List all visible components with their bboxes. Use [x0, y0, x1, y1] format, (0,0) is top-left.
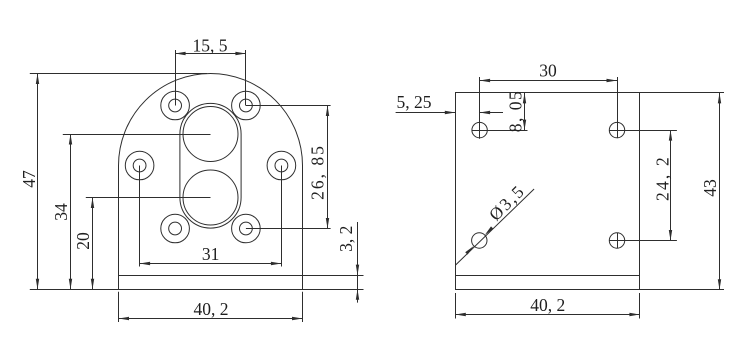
extension line top-left hole vertical (30 dim)	[479, 77, 481, 139]
dimension 30 (hole spacing)	[480, 61, 617, 83]
dimension 31 (mid hole spacing)	[140, 244, 282, 265]
counterbored hole top-right (left view)	[232, 91, 261, 120]
extension line top holes to 15,5 dim (right)	[245, 50, 247, 106]
left view bottom edge with extension line	[30, 289, 364, 291]
centre line top-right hole to 24,2 dim	[609, 130, 677, 132]
counterbored hole top-left (left view)	[161, 91, 190, 120]
gearbox slot outline	[180, 103, 241, 228]
extension line foot edge for 3,2 dim	[303, 275, 364, 277]
hole top-right (right view)	[609, 122, 624, 137]
svg-text:30: 30	[539, 61, 557, 81]
counterbored hole bottom-right (left view)	[232, 214, 261, 243]
counterbored hole bottom-left (left view)	[161, 214, 190, 243]
extension line top-right hole to 26,85 dim	[246, 105, 331, 107]
extension lines 40,2 (right view)	[456, 293, 640, 319]
svg-text:26, 85: 26, 85	[308, 144, 328, 200]
dimension 47 (overall height)	[19, 74, 39, 290]
dimension 3,2 (foot thickness)	[336, 222, 359, 303]
svg-text:34: 34	[51, 203, 71, 221]
leader line diameter 3,5	[456, 180, 534, 265]
svg-text:5, 25: 5, 25	[397, 92, 432, 112]
svg-text:15, 5: 15, 5	[193, 35, 228, 55]
svg-text:47: 47	[19, 170, 39, 188]
svg-text:20: 20	[73, 232, 93, 250]
dimension 5,25 (edge to hole)	[396, 92, 503, 114]
extension line upper gear centre for 34 dim	[63, 134, 211, 136]
dimension 40,2 (left view width)	[119, 299, 303, 320]
svg-text:8, 05: 8, 05	[506, 90, 526, 133]
centre line top-left hole to 8,05 dim	[472, 130, 528, 132]
hole bottom-right (right view)	[609, 233, 624, 248]
extension lines 40,2 (left view)	[119, 292, 303, 322]
counterbored hole mid-left (left view)	[125, 151, 154, 180]
left view foot edge line	[119, 275, 303, 277]
dimension 20 (lower gear centre height)	[73, 198, 94, 290]
svg-text:40, 2: 40, 2	[530, 295, 565, 315]
dimension 43 (plate height)	[700, 93, 721, 290]
right view foot edge line	[455, 275, 640, 277]
left view body outline	[119, 74, 303, 290]
extension line mid-right hole to 31 dim	[281, 166, 283, 267]
hole bottom-left (right view)	[472, 233, 487, 248]
dimension 26,85 (hole row spacing)	[308, 106, 330, 229]
lower gear circle	[183, 170, 238, 225]
dimension 40,2 (plate width)	[455, 295, 640, 316]
svg-text:40, 2: 40, 2	[194, 299, 229, 319]
right view plate outline	[456, 93, 640, 290]
extension lines 43 dim	[640, 93, 724, 290]
svg-text:24, 2: 24, 2	[653, 155, 673, 201]
hole top-left (right view)	[472, 122, 487, 137]
svg-text:Ø3,5: Ø3,5	[485, 180, 529, 224]
dimension 15,5 (top hole spacing)	[175, 35, 246, 55]
extension line top holes to 15,5 dim (left)	[175, 50, 177, 106]
extension line top of dome for 47 dim	[30, 73, 207, 75]
extension line bottom-right hole to 26,85 dim	[246, 228, 331, 230]
centre line bottom-right hole to 24,2 dim	[609, 240, 677, 242]
dimension 8,05 (top edge to hole)	[506, 90, 527, 133]
dimension 34 (upper gear centre height)	[51, 134, 72, 289]
extension line lower gear centre for 20 dim	[86, 197, 211, 199]
centre line bottom-right hole vertical	[617, 233, 619, 249]
counterbored hole mid-right (left view)	[267, 151, 296, 180]
upper gear circle	[183, 107, 238, 162]
dimension 24,2 (hole row spacing)	[653, 130, 673, 240]
svg-text:43: 43	[700, 179, 720, 197]
svg-text:3, 2: 3, 2	[336, 226, 356, 252]
extension line mid-left hole to 31 dim	[139, 166, 141, 267]
extension line top-right hole vertical (30 dim)	[617, 77, 619, 138]
svg-text:31: 31	[202, 244, 220, 264]
